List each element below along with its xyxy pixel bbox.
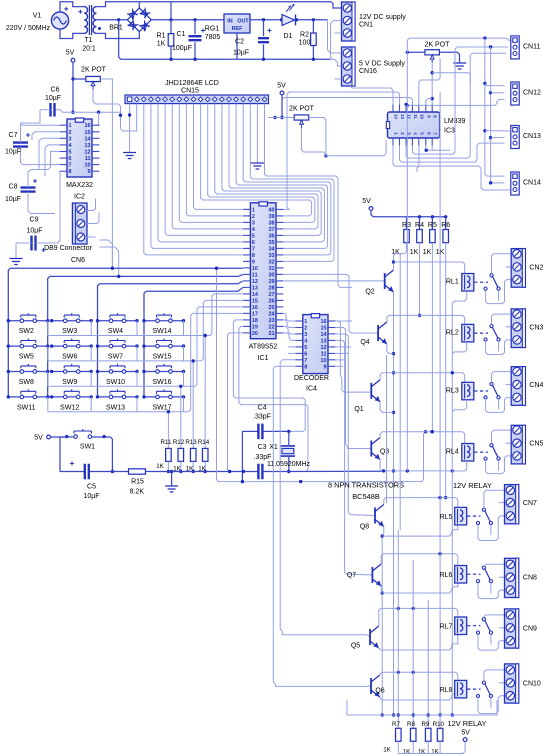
- svg-text:RL4: RL4: [446, 449, 459, 456]
- connector CN14: [511, 172, 519, 195]
- svg-text:Q3: Q3: [380, 449, 389, 456]
- wire decoder pin12 out: [335, 346, 351, 348]
- wire Q2 collector rail RL1: [394, 262, 465, 274]
- svg-text:SW16: SW16: [152, 379, 171, 386]
- switch SW2: [8, 320, 48, 322]
- svg-text:14: 14: [321, 332, 327, 338]
- wire 5V to SW1: [51, 436, 68, 438]
- wire pot2 wiper to LM339: [431, 63, 433, 105]
- wire Q2 emitter to bus: [393, 292, 395, 715]
- switch SW6: [52, 345, 91, 347]
- svg-text:8: 8: [252, 253, 255, 259]
- wire CN6 pin1 stub: [87, 199, 96, 211]
- resistor R3: [406, 217, 408, 230]
- capacitor C6: [51, 103, 55, 117]
- svg-text:24: 24: [269, 311, 275, 317]
- wire decoder pin11 out: [335, 352, 348, 354]
- transistor Q8: [374, 508, 376, 524]
- svg-text:IC1: IC1: [258, 355, 269, 362]
- connector CN5: [511, 425, 525, 464]
- rail R7-R10 bottoms to 5V: [398, 742, 465, 754]
- svg-text:6: 6: [252, 240, 255, 246]
- svg-text:C7: C7: [9, 132, 18, 139]
- svg-text:CN3: CN3: [529, 324, 543, 331]
- wire LCD pin14 data bus to IC1 pin36: [222, 104, 321, 236]
- resistor R6: [445, 217, 447, 230]
- wire LCD pin9 to IC1 pin2: [186, 104, 242, 216]
- wire decoder pin15 to Q3 base: [335, 328, 371, 449]
- svg-text:12: 12: [252, 279, 258, 285]
- transistor Q7: [371, 567, 373, 583]
- 5V terminal bottom: [463, 738, 467, 742]
- wire LCD pin4 to IC1 pin7: [151, 104, 243, 249]
- svg-text:CN13: CN13: [523, 133, 541, 140]
- svg-text:R4: R4: [415, 222, 424, 229]
- svg-text:R14: R14: [198, 439, 210, 446]
- relay contact RL1: [490, 274, 493, 277]
- capacitor C1: [194, 20, 196, 34]
- transistor Q2: [384, 273, 386, 289]
- svg-text:Q7: Q7: [347, 572, 356, 579]
- svg-text:RL7: RL7: [440, 624, 453, 631]
- svg-text:5: 5: [304, 345, 307, 351]
- keypad row 3 bus to IC1: [47, 372, 49, 387]
- wire LCD pin19 down: [256, 104, 258, 163]
- svg-text:10: 10: [419, 114, 424, 119]
- svg-text:R13: R13: [185, 439, 197, 446]
- resistor R15: [112, 471, 128, 473]
- svg-text:5V: 5V: [362, 198, 371, 205]
- svg-text:IC2: IC2: [74, 194, 85, 201]
- svg-text:JHD12864E LCD: JHD12864E LCD: [165, 80, 219, 87]
- svg-text:29: 29: [269, 279, 275, 285]
- wire lm339 bottom pin5: [417, 146, 419, 172]
- svg-text:10µF: 10µF: [26, 228, 42, 235]
- svg-text:100µF: 100µF: [172, 45, 192, 52]
- svg-text:OUT: OUT: [237, 19, 249, 25]
- wire lm339 bottom pin4 bus B source: [412, 47, 508, 154]
- svg-text:R11: R11: [161, 439, 172, 446]
- svg-text:SW13: SW13: [106, 404, 125, 411]
- connector CN8: [505, 558, 519, 597]
- connector CN13: [511, 126, 519, 149]
- switch SW8: [8, 371, 48, 373]
- svg-text:11: 11: [85, 156, 91, 162]
- emitter bus lower: [381, 536, 383, 715]
- switch SW9: [52, 371, 91, 373]
- wire decoder pin16 to Q1 base: [335, 321, 371, 392]
- wire decoder pin10 out: [335, 359, 345, 361]
- wire SW1 to C5 node: [104, 437, 112, 472]
- wire LCD pin2: [121, 104, 137, 131]
- IC AT89S52 IC1: [250, 203, 276, 339]
- svg-text:5V: 5V: [66, 50, 75, 57]
- wire center tap down to ground rail: [119, 20, 330, 60]
- svg-text:12V DC supply: 12V DC supply: [359, 14, 406, 21]
- svg-text:5V: 5V: [461, 730, 470, 737]
- svg-text:SW12: SW12: [60, 404, 79, 411]
- svg-text:9: 9: [324, 364, 327, 370]
- svg-text:D1: D1: [284, 33, 293, 40]
- svg-text:30: 30: [269, 272, 275, 278]
- svg-text:CN5: CN5: [529, 441, 543, 448]
- svg-text:Q1: Q1: [354, 406, 363, 413]
- svg-text:R8: R8: [407, 721, 415, 728]
- wire CN1 pin2: [331, 21, 342, 60]
- svg-text:R12: R12: [173, 439, 185, 446]
- svg-text:IC4: IC4: [306, 386, 317, 393]
- wire R12 riser: [180, 386, 182, 448]
- wire V1 top to transformer primary: [60, 2, 84, 12]
- svg-text:CN15: CN15: [181, 88, 199, 95]
- svg-text:34: 34: [269, 246, 275, 252]
- wire RL1 coil bottom: [452, 291, 466, 303]
- relay coil RL7: [455, 617, 467, 635]
- switch SW1: [74, 435, 78, 439]
- bus R10 x440 to resistor: [439, 715, 441, 728]
- resistor R8: [410, 728, 416, 741]
- wire lm339 bottom pin7: [431, 146, 433, 150]
- wire RG1 REF to ground rail: [236, 33, 238, 59]
- connector CN10: [505, 664, 519, 703]
- svg-text:23: 23: [269, 318, 275, 324]
- relay contact RL6: [482, 566, 485, 569]
- wire lm339 bottom pin2 to CN13 pin3: [400, 143, 505, 162]
- connector CN2: [511, 249, 525, 288]
- svg-text:14: 14: [85, 136, 91, 142]
- svg-text:1: 1: [69, 123, 72, 129]
- svg-text:1K: 1K: [410, 249, 419, 256]
- wire Q3 collector rail RL4: [380, 432, 465, 444]
- bus R7 x398: [397, 530, 399, 728]
- svg-text:CN4: CN4: [529, 382, 543, 389]
- switch SW10: [98, 371, 138, 373]
- svg-text:15: 15: [252, 298, 258, 304]
- svg-text:MAX232: MAX232: [66, 182, 93, 189]
- svg-text:32: 32: [269, 259, 275, 265]
- keypad column rail 2 to IC1 pin11: [50, 275, 243, 277]
- svg-text:16: 16: [321, 319, 327, 325]
- transistor Q1: [370, 383, 372, 399]
- svg-text:C1: C1: [177, 31, 186, 38]
- wire IC1 pin20 gnd loop: [228, 333, 243, 472]
- relay coil RL8: [455, 680, 467, 698]
- svg-text:36: 36: [269, 233, 275, 239]
- rail bottom 12V: [347, 700, 497, 715]
- svg-text:C8: C8: [9, 184, 18, 191]
- wire RL3 coil bottom: [452, 400, 466, 412]
- svg-text:9: 9: [252, 259, 255, 265]
- wire pot3 wiper: [302, 128, 326, 156]
- wire top rail drop to bridge apex: [138, 2, 140, 8]
- transistor Q3: [370, 441, 372, 457]
- svg-text:10µF: 10µF: [233, 50, 249, 57]
- svg-text:BR1: BR1: [109, 25, 123, 32]
- svg-text:17: 17: [252, 311, 258, 317]
- svg-text:R9: R9: [422, 721, 430, 728]
- svg-text:13: 13: [400, 114, 405, 119]
- rail R3-R6 top: [371, 210, 446, 216]
- svg-text:3: 3: [69, 136, 72, 142]
- switch SW16: [144, 371, 184, 373]
- svg-text:SW7: SW7: [108, 354, 123, 361]
- svg-text:CN9: CN9: [523, 625, 537, 632]
- svg-text:REF: REF: [232, 26, 243, 32]
- wire MAX232 pin2: [32, 132, 60, 140]
- switch SW11: [8, 396, 48, 398]
- wire lm339 pin feed: [406, 105, 407, 112]
- resistor R4: [419, 217, 421, 230]
- svg-text:1K: 1K: [157, 41, 166, 48]
- wire LCD pin13 data bus to IC1 pin37: [215, 104, 318, 229]
- wire R11 riser: [167, 412, 169, 449]
- svg-text:SW11: SW11: [17, 404, 36, 411]
- svg-text:.33pF: .33pF: [254, 454, 272, 461]
- transistor Q5: [369, 629, 371, 645]
- IC DECODER IC4: [303, 315, 328, 374]
- svg-text:C2: C2: [235, 39, 244, 46]
- wire pot1 left: [73, 78, 86, 80]
- IC MAX232 IC2: [67, 119, 92, 177]
- svg-text:SW8: SW8: [19, 379, 34, 386]
- svg-text:SW10: SW10: [106, 379, 125, 386]
- svg-text:7: 7: [69, 163, 72, 169]
- svg-text:20:1: 20:1: [82, 46, 96, 53]
- wire Q6 collector rail RL8: [380, 672, 458, 680]
- relay coil RL6: [455, 566, 467, 584]
- svg-text:CN14: CN14: [523, 180, 541, 187]
- wire pot2 right to ground: [440, 52, 460, 62]
- pot 2K POT middle: [294, 115, 309, 120]
- wire 5V to CN16 pin1: [328, 20, 342, 53]
- crystal X1: [281, 446, 295, 456]
- resistor R12: [178, 448, 184, 461]
- wire Q1 emitter: [380, 402, 393, 413]
- wire CN16 pin3 stub: [335, 78, 342, 80]
- resistor R5: [431, 217, 433, 230]
- wire LCD pin12 data bus to IC1 pin38: [208, 104, 315, 223]
- svg-text:CN16: CN16: [359, 68, 377, 75]
- wire Q3 emitter: [380, 460, 393, 471]
- wire Q5 emitter: [379, 635, 458, 650]
- wire LCD pin16 data bus to IC1 pin34: [236, 104, 328, 249]
- connector CN6 DB9: [72, 203, 87, 244]
- pot 2K POT left: [86, 76, 101, 81]
- connector CN11: [511, 36, 519, 59]
- keypad row 2 bus to IC1: [47, 346, 49, 361]
- relay contact RL2: [490, 325, 493, 328]
- resistor R9: [425, 728, 431, 741]
- wire IC1 pin40 VCC loop: [284, 92, 400, 209]
- switch SW3: [52, 320, 91, 322]
- svg-text:3: 3: [304, 332, 307, 338]
- svg-text:5V: 5V: [34, 435, 43, 442]
- svg-text:100: 100: [299, 40, 311, 47]
- svg-text:RL8: RL8: [440, 687, 453, 694]
- wire MAX232 pin9 to serial rail2: [99, 247, 118, 276]
- wire secondary center tap to bridge left: [96, 19, 127, 21]
- wire Q2 collector: [393, 262, 395, 270]
- bus R8 x413: [412, 560, 414, 728]
- switch SW17: [144, 396, 184, 398]
- svg-text:DECODER: DECODER: [294, 375, 329, 382]
- svg-text:5: 5: [69, 150, 72, 156]
- wire pot1 right down: [100, 79, 112, 268]
- svg-text:15: 15: [85, 130, 91, 136]
- svg-text:1K: 1K: [383, 747, 391, 754]
- switch SW14: [144, 320, 184, 322]
- svg-text:SW3: SW3: [62, 328, 77, 335]
- resistor R13: [190, 448, 196, 461]
- bus 12V vertical x440: [439, 92, 441, 715]
- wire 5V mid down: [281, 95, 283, 118]
- transistor Q4: [377, 325, 379, 341]
- svg-text:CN7: CN7: [523, 500, 537, 507]
- wire IC1 pin24 to decoder pin1: [284, 313, 296, 321]
- pot 2K POT top right: [425, 50, 440, 55]
- wire Q7 emitter: [381, 586, 382, 593]
- wire R13 riser: [192, 361, 194, 449]
- wire LCD pin6 to IC1 pin5: [165, 104, 243, 236]
- svg-text:11: 11: [252, 272, 258, 278]
- svg-text:12V RELAY: 12V RELAY: [448, 719, 487, 728]
- wire RL2 coil bottom: [452, 342, 466, 354]
- svg-text:C3: C3: [258, 444, 267, 451]
- connector CN1: [342, 2, 356, 41]
- wire CN6 pin3 stub: [87, 236, 96, 238]
- wire pot1 wiper: [93, 90, 121, 113]
- bus R9 x428: [427, 600, 429, 728]
- svg-text:16: 16: [252, 305, 258, 311]
- svg-text:1K: 1K: [418, 749, 426, 755]
- connector CN16: [342, 47, 356, 86]
- wire CN12 pin3: [407, 99, 504, 105]
- svg-text:25: 25: [269, 305, 275, 311]
- wire lm339 top pin5: [419, 58, 440, 104]
- LED D1: [282, 15, 295, 26]
- wire decoder pin13 to Q7 base: [335, 340, 372, 575]
- bus coil bottoms upper: [451, 303, 453, 471]
- svg-text:1K: 1K: [423, 249, 432, 256]
- relay contact RL4: [490, 444, 493, 447]
- wire lm339 bottom pin1 to CN14 pin3: [393, 146, 505, 190]
- svg-text:4: 4: [252, 227, 255, 233]
- wire pot2 left and top rail to CN11: [407, 51, 425, 53]
- wire LCD pin17 data bus to IC1 pin33: [243, 104, 331, 255]
- connector CN12: [511, 82, 519, 105]
- wire RL4 coil bottom: [452, 461, 466, 473]
- svg-text:8.2K: 8.2K: [130, 489, 145, 496]
- svg-text:6: 6: [304, 351, 307, 357]
- svg-text:7: 7: [304, 358, 307, 364]
- capacitor C4: [242, 430, 258, 432]
- svg-text:2K POT: 2K POT: [81, 67, 107, 74]
- svg-text:5V: 5V: [277, 83, 286, 90]
- svg-text:220V / 50MHz: 220V / 50MHz: [6, 25, 51, 32]
- wire LCD pin3 to IC1 pin8: [144, 104, 243, 255]
- svg-text:R7: R7: [392, 721, 400, 728]
- svg-text:BC548B: BC548B: [352, 492, 380, 501]
- ground LCD pin19: [251, 163, 264, 169]
- transistor Q6: [370, 678, 372, 694]
- svg-text:2K POT: 2K POT: [289, 106, 315, 113]
- wire pot3 right: [309, 118, 326, 156]
- svg-text:33: 33: [269, 253, 275, 259]
- svg-text:10: 10: [85, 163, 91, 169]
- capacitor C2: [263, 20, 265, 36]
- ground under C9: [15, 243, 17, 258]
- wire CN1 pin3 stub: [335, 32, 342, 34]
- connector CN7: [505, 485, 519, 524]
- connector CN3: [511, 309, 525, 348]
- relay coil RL2: [462, 324, 474, 342]
- wire LCD pin11 data bus to IC1 pin39: [201, 104, 312, 216]
- wire LCD pin18 data bus to IC1 pin32: [250, 104, 334, 262]
- svg-text:1K: 1K: [403, 749, 411, 755]
- wire LCD pin15 data bus to IC1 pin35: [229, 104, 324, 242]
- svg-text:8: 8: [304, 364, 307, 370]
- connector CN9: [505, 609, 519, 648]
- wire LCD pin5 to IC1 pin6: [158, 104, 243, 242]
- svg-text:13: 13: [321, 338, 327, 344]
- svg-text:SW14: SW14: [152, 328, 171, 335]
- wire decoder pin9 out: [335, 365, 343, 367]
- svg-text:R10: R10: [433, 721, 445, 728]
- svg-text:6: 6: [69, 156, 72, 162]
- svg-text:R1: R1: [157, 33, 166, 40]
- svg-text:2: 2: [252, 214, 255, 220]
- svg-text:12: 12: [85, 150, 91, 156]
- bus B to CN pins2: [491, 47, 505, 183]
- wire LCD pin1 down: [129, 104, 131, 152]
- wire IC1 pin30 to Q4 base: [284, 274, 379, 333]
- svg-text:26: 26: [269, 298, 275, 304]
- svg-text:39: 39: [269, 214, 275, 220]
- wire LCD pin7 to IC1 pin4: [172, 104, 243, 229]
- capacitor C3: [243, 471, 258, 473]
- resistor R2: [312, 20, 314, 33]
- wire CN13 pin1 stub: [505, 130, 511, 132]
- capacitor C9: [32, 236, 36, 251]
- svg-text:CN6: CN6: [71, 257, 85, 264]
- wire R5 down to Q3 rail: [431, 243, 433, 432]
- svg-text:13: 13: [85, 143, 91, 149]
- wire Q4 emitter: [387, 344, 394, 354]
- switch SW7: [98, 345, 138, 347]
- svg-text:V1: V1: [33, 13, 42, 20]
- wire CN6 pin2 stub: [87, 212, 99, 224]
- svg-text:AT89S52: AT89S52: [249, 344, 278, 351]
- svg-text:RL6: RL6: [440, 572, 453, 579]
- keypad column rail 3 to IC1 pin12: [100, 281, 243, 284]
- wire R1 top to top rail: [170, 2, 172, 20]
- svg-text:Q2: Q2: [365, 289, 374, 296]
- rail Q3 emitter row right: [394, 470, 453, 472]
- svg-text:SW2: SW2: [19, 328, 34, 335]
- svg-text:1K: 1K: [431, 749, 439, 755]
- wire IC1 pin18 loop to crystal: [233, 320, 305, 432]
- wire long loop left: [217, 268, 426, 481]
- svg-text:1K: 1K: [156, 463, 164, 470]
- svg-text:Q8: Q8: [360, 524, 369, 531]
- bus x400: [399, 253, 401, 530]
- svg-text:RL1: RL1: [446, 279, 459, 286]
- wire decoder pin8 to Q6 base: [273, 366, 371, 686]
- ground pot2: [453, 63, 466, 69]
- svg-text:R3: R3: [402, 222, 411, 229]
- svg-text:20: 20: [252, 331, 258, 337]
- svg-text:12V RELAY: 12V RELAY: [453, 481, 492, 490]
